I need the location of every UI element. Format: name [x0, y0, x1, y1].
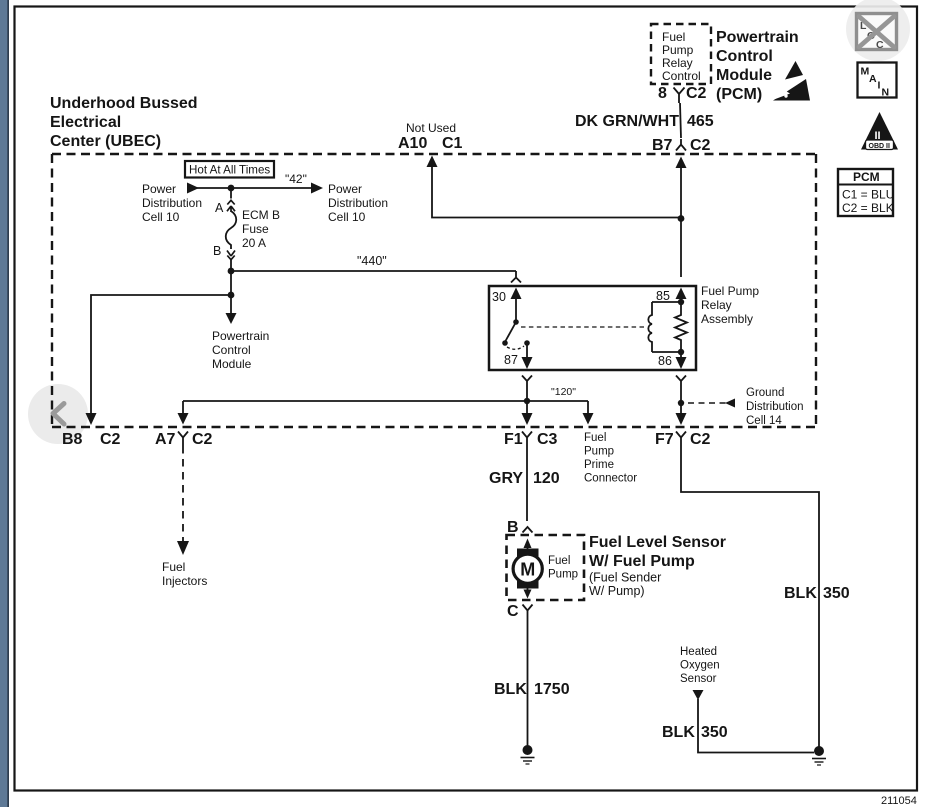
svg-text:C: C	[507, 603, 519, 620]
svg-text:"440": "440"	[357, 254, 387, 268]
svg-text:Relay: Relay	[662, 56, 693, 70]
pin 30 arrow up inside box	[511, 288, 522, 300]
svg-text:Distribution: Distribution	[746, 401, 804, 413]
svg-text:Fuel: Fuel	[162, 560, 185, 574]
node junction with A10 wire	[678, 215, 685, 222]
svg-text:A: A	[869, 73, 877, 85]
viewer left blue strip	[0, 0, 8, 807]
svg-text:Pump: Pump	[548, 569, 578, 581]
connector at B7 (arms down)	[676, 139, 686, 151]
node 120 junction	[524, 398, 530, 404]
icon MAIN	[858, 63, 897, 99]
svg-text:"120": "120"	[551, 386, 576, 398]
svg-text:DK GRN/WHT: DK GRN/WHT	[575, 113, 679, 130]
wire F7 to right side BLK 350	[681, 446, 819, 748]
wire 120 left drop to A7	[182, 401, 184, 414]
relay actuate dashed link to coil	[521, 326, 644, 328]
svg-text:"42": "42"	[285, 172, 307, 186]
wire A10 to relay column	[432, 166, 681, 218]
ESD icon small triangle	[785, 61, 803, 80]
node ground-dist junction	[678, 400, 684, 406]
svg-text:A10: A10	[398, 135, 427, 152]
svg-text:85: 85	[656, 289, 670, 303]
svg-text:C: C	[876, 39, 884, 51]
svg-text:Powertrain: Powertrain	[212, 329, 269, 343]
svg-text:GRY: GRY	[489, 470, 523, 487]
svg-text:C2: C2	[686, 85, 707, 102]
svg-text:20 A: 20 A	[242, 236, 266, 250]
svg-text:N: N	[882, 87, 890, 99]
arrow up at A10	[427, 156, 438, 168]
svg-text:Powertrain: Powertrain	[716, 29, 799, 46]
svg-text:Fuel: Fuel	[548, 555, 570, 567]
relay coil (left branch)	[648, 302, 681, 352]
svg-text:C2: C2	[100, 431, 121, 448]
ground distribution dashed tap	[688, 402, 727, 404]
svg-text:C2: C2	[690, 431, 711, 448]
svg-text:350: 350	[701, 724, 728, 741]
arrow up below B7 into UBEC	[676, 157, 687, 169]
svg-text:Distribution: Distribution	[328, 196, 388, 210]
dashed wire A7 to fuel injectors	[182, 446, 184, 543]
svg-text:Sensor: Sensor	[680, 673, 717, 685]
svg-text:Control: Control	[716, 48, 773, 65]
svg-text:Prime: Prime	[584, 459, 614, 471]
svg-text:I: I	[878, 80, 881, 92]
svg-text:Fuse: Fuse	[242, 222, 269, 236]
svg-text:C1 = BLU: C1 = BLU	[842, 188, 894, 202]
connector Y at F7	[676, 432, 686, 447]
icon LOC scissors (viewer)	[846, 0, 910, 61]
svg-text:B: B	[507, 519, 519, 536]
svg-text:ECM B: ECM B	[242, 208, 280, 222]
svg-text:Cell 10: Cell 10	[142, 210, 180, 224]
svg-text:PCM: PCM	[853, 170, 880, 184]
svg-text:Fuel Level Sensor: Fuel Level Sensor	[589, 534, 726, 551]
svg-text:86: 86	[658, 354, 672, 368]
hot bus wire	[196, 187, 315, 189]
svg-text:30: 30	[492, 290, 506, 304]
wire B7 down to relay	[680, 167, 682, 277]
svg-text:Center (UBEC): Center (UBEC)	[50, 133, 161, 150]
svg-text:C2: C2	[690, 137, 711, 154]
svg-text:C2: C2	[192, 431, 213, 448]
svg-text:BLK: BLK	[662, 724, 695, 741]
HO2S terminal triangle	[693, 690, 704, 700]
connector Y at C	[523, 605, 533, 618]
connector chevron above pin 30	[511, 278, 521, 283]
svg-text:Cell 10: Cell 10	[328, 210, 366, 224]
connector Y below 87	[522, 376, 532, 388]
arrow down at F7	[676, 413, 687, 425]
svg-text:350: 350	[823, 585, 850, 602]
connector Y at F1	[522, 432, 532, 447]
svg-text:(PCM): (PCM)	[716, 86, 762, 103]
svg-text:Control: Control	[662, 69, 701, 83]
arrow down at B8	[86, 413, 97, 425]
svg-text:Pump: Pump	[584, 446, 614, 458]
viewer left circle overlay	[28, 384, 88, 444]
coil suppression resistor (right branch)	[675, 302, 687, 352]
svg-text:C2 = BLK: C2 = BLK	[842, 201, 894, 215]
svg-text:B8: B8	[62, 431, 83, 448]
wire 120 horizontal	[183, 400, 588, 402]
svg-text:Pump: Pump	[662, 43, 694, 57]
svg-text:Connector: Connector	[584, 473, 637, 485]
UBEC dashed enclosure	[52, 154, 816, 427]
relay switch	[513, 319, 519, 325]
svg-text:Fuel Pump: Fuel Pump	[701, 284, 759, 298]
icon OBD II triangle	[861, 112, 898, 150]
connector Y below 86	[676, 376, 686, 388]
viewer back chevron	[53, 404, 64, 425]
Hot At All Times box	[185, 161, 274, 178]
svg-text:BLK: BLK	[494, 681, 527, 698]
svg-text:211054: 211054	[881, 795, 917, 807]
fuse F1 ECM B 20A	[226, 188, 237, 271]
svg-text:Oxygen: Oxygen	[680, 660, 720, 672]
PCM connector legend	[838, 169, 894, 216]
node coil top 85	[678, 299, 684, 305]
ESD icon hand triangle	[773, 79, 810, 101]
fuel pump dashed box	[507, 535, 585, 600]
connector Y at A7	[178, 432, 188, 447]
svg-text:Power: Power	[142, 182, 176, 196]
feed arrow left	[187, 183, 199, 194]
svg-text:Fuel: Fuel	[662, 30, 685, 44]
svg-text:Module: Module	[212, 357, 252, 371]
svg-text:F1: F1	[504, 431, 523, 448]
svg-text:C1: C1	[442, 135, 463, 152]
relay assembly box	[489, 286, 696, 370]
ground G right	[812, 746, 826, 765]
node pcm branch junction	[228, 292, 235, 299]
wire BLK 1750 to ground	[527, 617, 529, 748]
svg-text:Control: Control	[212, 343, 251, 357]
svg-text:A: A	[215, 201, 224, 215]
svg-text:Assembly: Assembly	[701, 312, 753, 326]
node 440 junction	[228, 268, 235, 275]
wire branch to B8	[91, 295, 231, 414]
svg-text:Ground: Ground	[746, 387, 784, 399]
pin 85 arrow up inside box	[676, 288, 687, 300]
svg-text:M: M	[520, 560, 535, 580]
svg-text:W/ Fuel Pump: W/ Fuel Pump	[589, 553, 695, 570]
wire 440	[231, 270, 516, 272]
svg-text:Heated: Heated	[680, 646, 717, 658]
arrow up inside pump box	[524, 539, 532, 549]
node hot bus junction	[228, 185, 235, 192]
svg-text:C3: C3	[537, 431, 558, 448]
arrow down exiting pump	[527, 589, 529, 592]
arrow down at F1	[522, 413, 533, 425]
svg-text:Underhood Bussed: Underhood Bussed	[50, 95, 198, 112]
svg-text:BLK: BLK	[784, 585, 817, 602]
svg-text:B: B	[213, 244, 221, 258]
svg-text:(Fuel Sender: (Fuel Sender	[589, 571, 661, 585]
svg-text:B7: B7	[652, 137, 673, 154]
svg-text:Distribution: Distribution	[142, 196, 202, 210]
svg-text:8: 8	[658, 85, 667, 102]
wire 87 to F1	[526, 387, 528, 414]
svg-text:1750: 1750	[534, 681, 570, 698]
svg-text:Injectors: Injectors	[162, 574, 207, 588]
wire 86 to F7	[680, 387, 682, 414]
svg-text:Not Used: Not Used	[406, 121, 456, 135]
svg-text:Cell 14: Cell 14	[746, 415, 782, 427]
ground G left	[521, 745, 535, 764]
connector chevron at B	[523, 527, 533, 533]
svg-text:A7: A7	[155, 431, 176, 448]
svg-text:OBD II: OBD II	[869, 143, 890, 150]
PCM pin box: Fuel Pump Relay Control	[651, 24, 711, 84]
svg-text:Module: Module	[716, 67, 772, 84]
connector Y at pin 8	[674, 88, 685, 104]
svg-text:Hot At All Times: Hot At All Times	[189, 164, 270, 177]
svg-text:87: 87	[504, 353, 518, 367]
svg-text:Electrical: Electrical	[50, 114, 121, 131]
wire pin8 to B7	[680, 103, 681, 138]
node coil bottom 86	[678, 349, 684, 355]
wire GRY 120 F1 to pump	[526, 446, 528, 521]
svg-text:W/ Pump): W/ Pump)	[589, 584, 645, 598]
feed arrow right to cell 10	[311, 183, 323, 194]
arrow down PCM feed	[226, 313, 237, 324]
svg-text:465: 465	[687, 113, 714, 130]
svg-text:120: 120	[533, 470, 560, 487]
svg-text:Fuel: Fuel	[584, 432, 606, 444]
svg-text:F7: F7	[655, 431, 674, 448]
wire to PCM feed	[230, 271, 232, 314]
svg-text:Power: Power	[328, 182, 362, 196]
svg-text:Relay: Relay	[701, 298, 732, 312]
motor M fuel pump	[513, 549, 578, 589]
wire 120 right drop to prime connector	[587, 401, 589, 414]
wire HO2S BLK 350 to ground	[698, 699, 814, 753]
